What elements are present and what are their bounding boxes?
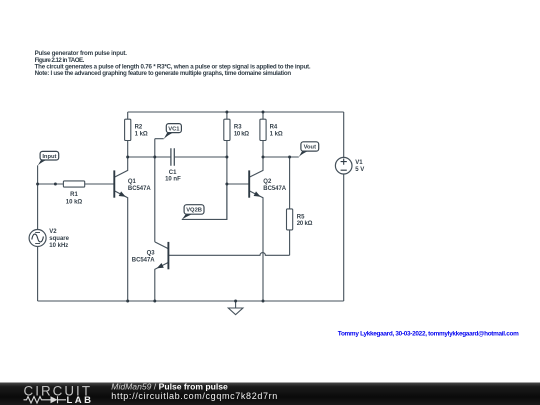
wire VC1 tail horizontal — [155, 138, 164, 140]
wire R5 top — [289, 157, 291, 209]
wire R3 bottom through nodes to VQ2B branch — [182, 141, 227, 220]
svg-text:C1: C1 — [169, 170, 177, 176]
wire node to Vout — [263, 156, 299, 158]
junction Q2 base / VQ2B branch — [225, 183, 228, 186]
svg-text:LAB: LAB — [67, 395, 92, 405]
svg-text:R5: R5 — [297, 214, 305, 220]
junction top rail / R4 — [262, 111, 265, 114]
svg-text:R2: R2 — [135, 124, 143, 130]
wire R4 top stub — [262, 112, 264, 119]
wire Q3 collector diagonal — [155, 242, 169, 249]
wire R3 top stub — [226, 112, 228, 119]
svg-text:MidMan59 / Pulse from pulse: MidMan59 / Pulse from pulse — [111, 381, 228, 391]
svg-text:R3: R3 — [234, 124, 242, 130]
svg-text:BC547A: BC547A — [132, 257, 155, 263]
wire C1 left — [128, 156, 171, 158]
junction R4 bottom / Q2 collector — [262, 156, 265, 159]
wire Q2 emitter down — [249, 191, 263, 301]
flag VQ2B — [182, 205, 204, 220]
junction bottom rail / Q2 emitter — [262, 300, 265, 303]
junction Input node / R1 / V2 — [36, 183, 39, 186]
wire VQ2B vertical — [226, 184, 228, 219]
resistor R2 — [125, 119, 148, 140]
wire C1 right — [174, 156, 227, 158]
transistor Q2 — [249, 170, 287, 197]
svg-text:1 kΩ: 1 kΩ — [135, 132, 148, 138]
svg-text:V1: V1 — [355, 160, 363, 166]
svg-text:VQ2B: VQ2B — [186, 208, 202, 214]
svg-text:Tommy Lykkegaard, 30-03-2022,: Tommy Lykkegaard, 30-03-2022, tommylykke… — [338, 331, 519, 338]
transistor Q1 — [114, 170, 151, 197]
wire Q3 emitter — [155, 262, 169, 301]
wire Q2 base — [227, 183, 249, 185]
junction Vout wire / R5 top — [288, 156, 291, 159]
svg-text:V2: V2 — [49, 229, 57, 235]
svg-text:Note: I use the advanced graph: Note: I use the advanced graphing featur… — [35, 70, 292, 77]
junction R2 bottom / Q1 collector / C1 left — [126, 156, 129, 159]
junction bottom rail / ground — [234, 300, 237, 303]
junction top rail / R3 — [225, 111, 228, 114]
wire bottom rail — [38, 300, 344, 302]
voltage source V1 — [335, 157, 364, 174]
flag VC1 — [164, 124, 182, 139]
junction wire joint left of R1 — [54, 183, 57, 186]
svg-text:R1: R1 — [70, 192, 78, 198]
transistor Q3 — [132, 242, 169, 269]
svg-text:Vout: Vout — [304, 145, 317, 151]
logo resistor-diode squiggle — [24, 396, 67, 403]
svg-text:BC547A: BC547A — [263, 186, 286, 192]
svg-text:BC547A: BC547A — [128, 186, 151, 192]
header annotation text — [35, 50, 311, 77]
svg-text:10 kΩ: 10 kΩ — [234, 132, 249, 138]
junction C1 right / R3 bottom — [225, 156, 228, 159]
wire Q3 base with hop over Q2 emitter — [168, 253, 289, 256]
wire R2 top stub — [127, 112, 129, 119]
svg-text:http://circuitlab.com/cgqmc7k8: http://circuitlab.com/cgqmc7k82d7rn — [111, 391, 277, 401]
resistor R4 — [260, 119, 283, 140]
wire R4 bottom — [262, 141, 264, 158]
wire Q1 base — [85, 183, 115, 185]
svg-text:Input: Input — [42, 154, 56, 160]
junction bottom rail / Q3 emitter — [153, 300, 156, 303]
svg-text:R4: R4 — [270, 124, 278, 130]
svg-text:VC1: VC1 — [168, 126, 180, 132]
svg-text:Q3: Q3 — [147, 251, 156, 257]
wire V2 bottom — [37, 247, 39, 302]
svg-text:Q2: Q2 — [263, 179, 272, 185]
svg-text:10 kHz: 10 kHz — [49, 243, 68, 249]
wire top rail — [128, 111, 344, 113]
svg-text:5 V: 5 V — [355, 167, 364, 173]
resistor R3 — [224, 119, 249, 140]
wire Q1 emitter down — [114, 191, 127, 301]
junction bottom rail / Q1 emitter — [126, 300, 129, 303]
junction VC1 wire / C1 left wire — [153, 156, 156, 159]
svg-text:1 kΩ: 1 kΩ — [270, 132, 283, 138]
svg-text:10 kΩ: 10 kΩ — [66, 199, 83, 205]
wire V1 bottom — [343, 174, 345, 301]
wire Q2 collector — [249, 157, 263, 177]
resistor R5 — [287, 209, 313, 230]
ground — [228, 301, 243, 315]
wire V1 top — [343, 112, 345, 157]
footer black bar — [0, 383, 540, 405]
wire R2 bottom to node — [127, 141, 129, 158]
flag Vout — [299, 142, 319, 157]
wire R5 bottom — [289, 230, 291, 255]
wire Q1 collector — [114, 157, 127, 177]
wire Input flag down — [37, 165, 39, 229]
wire R1 left — [38, 183, 64, 185]
wire VC1 vertical to Q3 collector — [154, 139, 156, 242]
svg-text:20 kΩ: 20 kΩ — [297, 221, 313, 227]
voltage source V2 (square) — [29, 229, 70, 249]
svg-text:10 nF: 10 nF — [165, 176, 181, 182]
capacitor C1 — [165, 148, 181, 182]
svg-text:Q1: Q1 — [128, 179, 137, 185]
resistor R1 — [63, 181, 84, 206]
svg-text:square: square — [49, 236, 69, 242]
flag Input — [38, 151, 59, 165]
